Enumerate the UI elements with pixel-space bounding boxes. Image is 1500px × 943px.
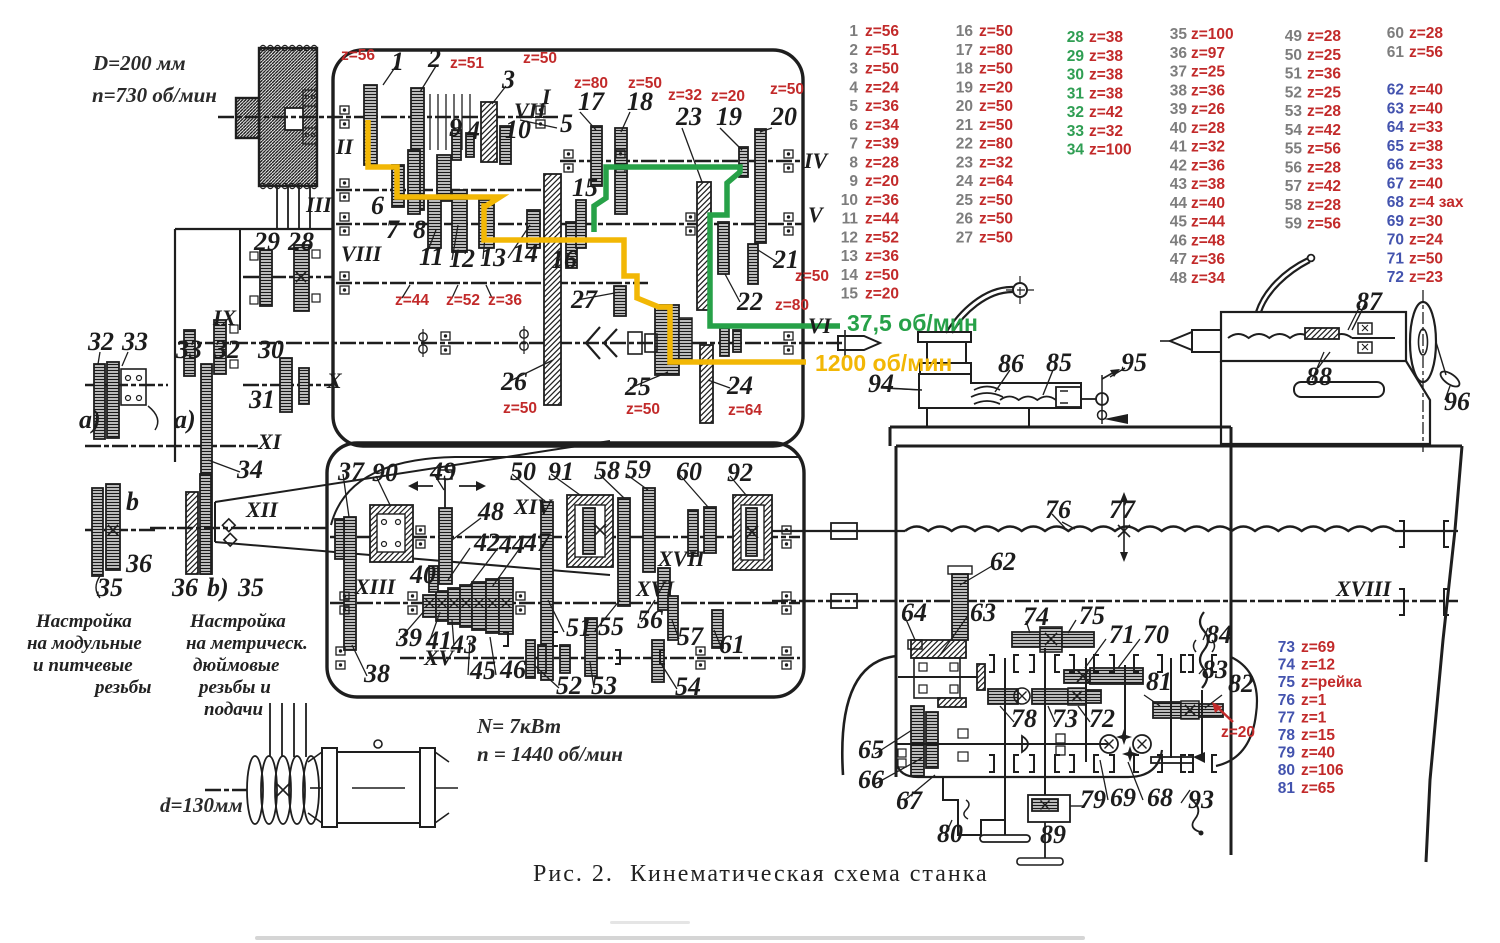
svg-text:z=65: z=65 bbox=[1301, 780, 1335, 797]
svg-text:74: 74 bbox=[1278, 657, 1296, 674]
svg-text:18: 18 bbox=[956, 61, 974, 78]
svg-text:73: 73 bbox=[1278, 639, 1296, 656]
svg-text:79: 79 bbox=[1278, 745, 1296, 762]
svg-text:11: 11 bbox=[419, 242, 444, 271]
svg-text:XII: XII bbox=[245, 497, 279, 522]
svg-text:37,5 об/мин: 37,5 об/мин bbox=[847, 310, 978, 336]
svg-text:47: 47 bbox=[523, 528, 551, 557]
svg-text:z=28: z=28 bbox=[1307, 159, 1341, 176]
svg-text:23: 23 bbox=[956, 154, 974, 171]
svg-text:69: 69 bbox=[1110, 783, 1136, 812]
svg-text:X: X bbox=[326, 368, 343, 393]
svg-text:52: 52 bbox=[556, 671, 582, 700]
svg-text:51: 51 bbox=[1285, 66, 1303, 83]
svg-text:32: 32 bbox=[87, 327, 114, 356]
svg-text:62: 62 bbox=[990, 547, 1016, 576]
svg-text:12: 12 bbox=[449, 244, 475, 273]
svg-text:19: 19 bbox=[956, 79, 974, 96]
svg-text:резьбы и: резьбы и bbox=[197, 677, 271, 698]
svg-text:75: 75 bbox=[1079, 601, 1105, 630]
svg-text:z=50: z=50 bbox=[523, 50, 557, 67]
svg-text:26: 26 bbox=[500, 367, 527, 396]
svg-text:z=40: z=40 bbox=[1409, 82, 1443, 99]
svg-text:24: 24 bbox=[726, 371, 753, 400]
svg-text:z=50: z=50 bbox=[1409, 250, 1443, 267]
svg-text:z=40: z=40 bbox=[1301, 745, 1335, 762]
svg-text:33: 33 bbox=[175, 335, 202, 364]
svg-text:59: 59 bbox=[1285, 216, 1303, 233]
svg-text:z=рейка: z=рейка bbox=[1301, 674, 1362, 691]
svg-text:70: 70 bbox=[1387, 232, 1404, 249]
svg-text:8: 8 bbox=[413, 215, 426, 244]
svg-text:z=56: z=56 bbox=[1307, 141, 1341, 158]
svg-text:z=56: z=56 bbox=[1307, 216, 1341, 233]
svg-text:z=20: z=20 bbox=[865, 173, 899, 190]
svg-text:z=26: z=26 bbox=[1191, 101, 1225, 118]
svg-text:z=28: z=28 bbox=[1307, 103, 1341, 120]
svg-text:37: 37 bbox=[337, 457, 365, 486]
svg-text:83: 83 bbox=[1202, 655, 1228, 684]
svg-text:резьбы: резьбы bbox=[93, 677, 151, 698]
svg-text:z=36: z=36 bbox=[865, 192, 899, 209]
svg-text:33: 33 bbox=[1067, 123, 1085, 140]
svg-text:35: 35 bbox=[96, 573, 123, 602]
svg-text:z=100: z=100 bbox=[1191, 26, 1234, 43]
svg-text:88: 88 bbox=[1306, 362, 1332, 391]
svg-text:z=48: z=48 bbox=[1191, 232, 1225, 249]
svg-text:86: 86 bbox=[998, 349, 1024, 378]
svg-text:77: 77 bbox=[1278, 709, 1295, 726]
svg-text:z=100: z=100 bbox=[1089, 142, 1132, 159]
svg-text:z=50: z=50 bbox=[979, 192, 1013, 209]
svg-text:4: 4 bbox=[849, 79, 858, 96]
svg-text:z=51: z=51 bbox=[450, 55, 484, 72]
svg-text:z=28: z=28 bbox=[865, 154, 899, 171]
svg-text:45: 45 bbox=[469, 656, 496, 685]
svg-text:50: 50 bbox=[510, 457, 536, 486]
svg-text:94: 94 bbox=[868, 369, 894, 398]
svg-text:11: 11 bbox=[842, 211, 859, 228]
svg-text:54: 54 bbox=[675, 672, 701, 701]
svg-text:68: 68 bbox=[1147, 783, 1173, 812]
svg-text:z=97: z=97 bbox=[1191, 45, 1225, 62]
svg-text:z=52: z=52 bbox=[446, 292, 480, 309]
svg-text:9: 9 bbox=[849, 173, 858, 190]
svg-text:z=50: z=50 bbox=[979, 117, 1013, 134]
svg-text:a): a) bbox=[174, 405, 196, 434]
svg-text:z=69: z=69 bbox=[1301, 639, 1335, 656]
svg-text:z=38: z=38 bbox=[1089, 67, 1123, 84]
svg-text:31: 31 bbox=[1067, 85, 1085, 102]
svg-text:z=38: z=38 bbox=[1409, 138, 1443, 155]
svg-text:65: 65 bbox=[858, 735, 884, 764]
svg-text:15: 15 bbox=[572, 173, 598, 202]
svg-text:66: 66 bbox=[858, 765, 884, 794]
svg-text:z=1: z=1 bbox=[1301, 692, 1327, 709]
svg-text:16: 16 bbox=[551, 245, 577, 274]
svg-text:72: 72 bbox=[1387, 269, 1404, 286]
svg-text:IX: IX bbox=[212, 305, 238, 330]
svg-text:z=50: z=50 bbox=[979, 61, 1013, 78]
svg-text:XVI: XVI bbox=[635, 576, 675, 601]
svg-text:14: 14 bbox=[512, 239, 538, 268]
svg-text:z=38: z=38 bbox=[1191, 176, 1225, 193]
svg-text:z=42: z=42 bbox=[1307, 122, 1341, 139]
svg-text:z=28: z=28 bbox=[1307, 28, 1341, 45]
svg-text:7: 7 bbox=[849, 136, 858, 153]
svg-text:IV: IV bbox=[803, 148, 830, 173]
svg-text:6: 6 bbox=[849, 117, 858, 134]
svg-text:z=50: z=50 bbox=[865, 61, 899, 78]
svg-text:38: 38 bbox=[363, 659, 390, 688]
svg-text:68: 68 bbox=[1387, 194, 1405, 211]
svg-text:II: II bbox=[335, 134, 355, 159]
svg-text:z=50: z=50 bbox=[979, 98, 1013, 115]
svg-text:5: 5 bbox=[560, 109, 573, 138]
svg-text:на модульные: на модульные bbox=[27, 633, 142, 654]
svg-text:58: 58 bbox=[1285, 197, 1303, 214]
svg-text:2: 2 bbox=[427, 44, 441, 73]
svg-text:z=34: z=34 bbox=[865, 117, 899, 134]
svg-text:z=20: z=20 bbox=[979, 79, 1013, 96]
svg-text:35: 35 bbox=[1170, 26, 1188, 43]
svg-text:и питчевые: и питчевые bbox=[33, 655, 133, 676]
svg-text:14: 14 bbox=[841, 267, 859, 284]
svg-text:z=32: z=32 bbox=[1191, 139, 1225, 156]
svg-text:12: 12 bbox=[841, 229, 858, 246]
svg-text:XI: XI bbox=[257, 429, 283, 454]
svg-text:8: 8 bbox=[849, 154, 858, 171]
svg-text:92: 92 bbox=[727, 458, 753, 487]
svg-text:z=36: z=36 bbox=[1191, 82, 1225, 99]
svg-text:z=25: z=25 bbox=[1307, 47, 1341, 64]
svg-text:дюймовые: дюймовые bbox=[193, 655, 280, 676]
svg-text:85: 85 bbox=[1046, 348, 1072, 377]
svg-text:z=50: z=50 bbox=[979, 23, 1013, 40]
svg-text:z=36: z=36 bbox=[1191, 251, 1225, 268]
svg-text:33: 33 bbox=[121, 327, 148, 356]
svg-text:z=33: z=33 bbox=[1409, 119, 1443, 136]
svg-text:31: 31 bbox=[248, 385, 275, 414]
svg-text:VII: VII bbox=[514, 98, 547, 123]
svg-text:13: 13 bbox=[841, 248, 859, 265]
svg-text:z=39: z=39 bbox=[865, 136, 899, 153]
svg-text:89: 89 bbox=[1040, 820, 1066, 849]
svg-text:3: 3 bbox=[501, 65, 515, 94]
svg-text:96: 96 bbox=[1444, 387, 1470, 416]
svg-text:z=25: z=25 bbox=[1307, 84, 1341, 101]
svg-text:29: 29 bbox=[253, 227, 280, 256]
svg-text:36: 36 bbox=[1170, 45, 1188, 62]
svg-text:81: 81 bbox=[1278, 780, 1296, 797]
svg-text:на метрическ.: на метрическ. bbox=[186, 633, 308, 654]
svg-text:84: 84 bbox=[1206, 620, 1232, 649]
svg-text:65: 65 bbox=[1387, 138, 1405, 155]
svg-text:57: 57 bbox=[677, 622, 704, 651]
svg-text:22: 22 bbox=[736, 287, 763, 316]
svg-text:48: 48 bbox=[477, 497, 504, 526]
svg-text:57: 57 bbox=[1285, 178, 1302, 195]
svg-text:III: III bbox=[305, 192, 333, 217]
svg-text:37: 37 bbox=[1170, 64, 1187, 81]
svg-text:81: 81 bbox=[1146, 667, 1172, 696]
svg-text:73: 73 bbox=[1052, 704, 1078, 733]
svg-text:z=44: z=44 bbox=[865, 211, 899, 228]
svg-text:z=50: z=50 bbox=[795, 268, 829, 285]
svg-text:17: 17 bbox=[578, 87, 605, 116]
svg-text:19: 19 bbox=[716, 102, 742, 131]
svg-text:77: 77 bbox=[1109, 495, 1136, 524]
svg-text:z=28: z=28 bbox=[1307, 197, 1341, 214]
svg-text:48: 48 bbox=[1170, 270, 1188, 287]
svg-text:z=20: z=20 bbox=[865, 286, 899, 303]
svg-text:z=36: z=36 bbox=[1307, 66, 1341, 83]
svg-text:z=38: z=38 bbox=[1089, 29, 1123, 46]
svg-text:z=36: z=36 bbox=[865, 248, 899, 265]
svg-text:z=25: z=25 bbox=[1191, 64, 1225, 81]
svg-text:32: 32 bbox=[213, 335, 240, 364]
svg-text:15: 15 bbox=[841, 286, 859, 303]
svg-text:36: 36 bbox=[125, 549, 152, 578]
svg-text:17: 17 bbox=[956, 42, 973, 59]
svg-text:z=33: z=33 bbox=[1409, 157, 1443, 174]
svg-text:z=32: z=32 bbox=[1089, 123, 1123, 140]
svg-text:76: 76 bbox=[1278, 692, 1296, 709]
svg-text:63: 63 bbox=[970, 598, 996, 627]
svg-text:53: 53 bbox=[591, 671, 617, 700]
svg-text:61: 61 bbox=[719, 630, 745, 659]
svg-text:54: 54 bbox=[1285, 122, 1303, 139]
svg-text:Кинематическая схема станка: Кинематическая схема станка bbox=[630, 861, 989, 887]
svg-text:35: 35 bbox=[237, 573, 264, 602]
svg-text:5: 5 bbox=[849, 98, 858, 115]
svg-text:z=50: z=50 bbox=[626, 401, 660, 418]
svg-text:74: 74 bbox=[1023, 602, 1049, 631]
svg-text:55: 55 bbox=[1285, 141, 1303, 158]
svg-text:18: 18 bbox=[627, 87, 653, 116]
svg-text:24: 24 bbox=[956, 173, 974, 190]
svg-text:10: 10 bbox=[841, 192, 858, 209]
svg-text:z=40: z=40 bbox=[1409, 175, 1443, 192]
svg-text:28: 28 bbox=[1067, 29, 1085, 46]
svg-text:z=50: z=50 bbox=[979, 229, 1013, 246]
svg-text:20: 20 bbox=[770, 102, 797, 131]
svg-text:Рис. 2.: Рис. 2. bbox=[533, 861, 614, 887]
svg-text:9: 9 bbox=[449, 113, 462, 142]
svg-text:71: 71 bbox=[1387, 250, 1405, 267]
svg-text:z=24: z=24 bbox=[865, 79, 899, 96]
svg-text:51: 51 bbox=[566, 613, 592, 642]
svg-text:26: 26 bbox=[956, 211, 974, 228]
svg-text:z=36: z=36 bbox=[1191, 157, 1225, 174]
svg-text:67: 67 bbox=[1387, 175, 1404, 192]
svg-text:52: 52 bbox=[1285, 84, 1302, 101]
svg-text:a): a) bbox=[79, 405, 101, 434]
svg-text:2: 2 bbox=[849, 42, 858, 59]
svg-text:b): b) bbox=[207, 573, 229, 602]
svg-text:z=50: z=50 bbox=[503, 400, 537, 417]
svg-text:91: 91 bbox=[548, 457, 574, 486]
svg-text:55: 55 bbox=[598, 612, 624, 641]
svg-text:z=42: z=42 bbox=[1307, 178, 1341, 195]
svg-text:34: 34 bbox=[236, 455, 263, 484]
svg-text:71: 71 bbox=[1109, 620, 1135, 649]
svg-text:VIII: VIII bbox=[341, 241, 383, 266]
svg-text:1: 1 bbox=[391, 47, 404, 76]
svg-text:22: 22 bbox=[956, 136, 973, 153]
svg-text:76: 76 bbox=[1045, 495, 1071, 524]
svg-text:z=106: z=106 bbox=[1301, 762, 1344, 779]
svg-text:Настройка: Настройка bbox=[189, 611, 286, 632]
svg-text:28: 28 bbox=[287, 227, 314, 256]
svg-text:z=36: z=36 bbox=[865, 98, 899, 115]
svg-text:47: 47 bbox=[1170, 251, 1187, 268]
svg-text:z=20: z=20 bbox=[1221, 724, 1255, 741]
svg-text:z=30: z=30 bbox=[1409, 213, 1443, 230]
svg-text:N= 7кВт: N= 7кВт bbox=[476, 714, 561, 738]
svg-text:1: 1 bbox=[849, 23, 858, 40]
svg-text:z=80: z=80 bbox=[979, 136, 1013, 153]
svg-text:39: 39 bbox=[395, 623, 422, 652]
svg-text:95: 95 bbox=[1121, 348, 1147, 377]
svg-text:XVIII: XVIII bbox=[1335, 576, 1392, 601]
svg-text:46: 46 bbox=[499, 655, 526, 684]
svg-text:z=34: z=34 bbox=[1191, 270, 1225, 287]
svg-text:49: 49 bbox=[1285, 28, 1303, 45]
svg-text:58: 58 bbox=[594, 456, 620, 485]
svg-text:21: 21 bbox=[772, 245, 799, 274]
svg-text:80: 80 bbox=[1278, 762, 1295, 779]
svg-text:80: 80 bbox=[937, 819, 963, 848]
svg-text:z=24: z=24 bbox=[1409, 232, 1443, 249]
svg-text:62: 62 bbox=[1387, 82, 1404, 99]
svg-text:z=36: z=36 bbox=[488, 292, 522, 309]
svg-text:42: 42 bbox=[1170, 157, 1187, 174]
svg-text:3: 3 bbox=[849, 61, 858, 78]
svg-text:64: 64 bbox=[901, 598, 927, 627]
svg-text:78: 78 bbox=[1278, 727, 1296, 744]
svg-text:D=200 мм: D=200 мм bbox=[92, 51, 186, 75]
svg-text:z=50: z=50 bbox=[979, 211, 1013, 228]
svg-text:z=1: z=1 bbox=[1301, 709, 1327, 726]
svg-text:b: b bbox=[126, 487, 139, 516]
svg-text:78: 78 bbox=[1011, 704, 1037, 733]
svg-text:40: 40 bbox=[1170, 120, 1187, 137]
svg-text:z=38: z=38 bbox=[1089, 85, 1123, 102]
svg-text:z=38: z=38 bbox=[1089, 48, 1123, 65]
svg-text:z=15: z=15 bbox=[1301, 727, 1335, 744]
svg-text:z=28: z=28 bbox=[1409, 25, 1443, 42]
svg-text:Настройка: Настройка bbox=[35, 611, 132, 632]
svg-text:82: 82 bbox=[1228, 669, 1254, 698]
svg-text:61: 61 bbox=[1387, 44, 1405, 61]
svg-text:z=40: z=40 bbox=[1191, 195, 1225, 212]
svg-text:z=32: z=32 bbox=[979, 154, 1013, 171]
svg-text:63: 63 bbox=[1387, 100, 1405, 117]
svg-text:6: 6 bbox=[371, 191, 384, 220]
svg-text:72: 72 bbox=[1089, 704, 1115, 733]
svg-text:n = 1440 об/мин: n = 1440 об/мин bbox=[477, 742, 623, 766]
svg-text:z=56: z=56 bbox=[1409, 44, 1443, 61]
svg-text:44: 44 bbox=[498, 530, 525, 559]
svg-text:z=4 зах: z=4 зах bbox=[1409, 194, 1464, 211]
svg-text:XVII: XVII bbox=[657, 546, 706, 571]
svg-text:75: 75 bbox=[1278, 674, 1296, 691]
svg-text:50: 50 bbox=[1285, 47, 1302, 64]
svg-text:V: V bbox=[808, 202, 825, 227]
svg-text:27: 27 bbox=[570, 285, 598, 314]
svg-text:69: 69 bbox=[1387, 213, 1405, 230]
svg-text:20: 20 bbox=[956, 98, 973, 115]
svg-text:79: 79 bbox=[1080, 785, 1106, 814]
svg-text:56: 56 bbox=[1285, 159, 1303, 176]
svg-text:d=130мм: d=130мм bbox=[160, 793, 243, 817]
svg-text:z=44: z=44 bbox=[1191, 214, 1225, 231]
svg-text:60: 60 bbox=[1387, 25, 1404, 42]
svg-text:7: 7 bbox=[386, 215, 400, 244]
svg-text:45: 45 bbox=[1170, 214, 1188, 231]
svg-text:32: 32 bbox=[1067, 104, 1084, 121]
svg-text:67: 67 bbox=[896, 786, 923, 815]
svg-text:VI: VI bbox=[808, 313, 833, 338]
svg-text:93: 93 bbox=[1188, 785, 1214, 814]
svg-text:z=80: z=80 bbox=[979, 42, 1013, 59]
svg-text:z=80: z=80 bbox=[775, 297, 809, 314]
svg-text:4: 4 bbox=[466, 116, 480, 145]
svg-text:XV: XV bbox=[423, 645, 456, 670]
svg-text:38: 38 bbox=[1170, 82, 1188, 99]
svg-text:44: 44 bbox=[1170, 195, 1188, 212]
svg-text:49: 49 bbox=[429, 457, 456, 486]
svg-text:64: 64 bbox=[1387, 119, 1405, 136]
svg-text:z=50: z=50 bbox=[865, 267, 899, 284]
svg-text:XIV: XIV bbox=[513, 494, 554, 519]
svg-text:n=730 об/мин: n=730 об/мин bbox=[92, 83, 217, 107]
svg-text:60: 60 bbox=[676, 457, 702, 486]
svg-text:87: 87 bbox=[1356, 287, 1383, 316]
svg-text:XIII: XIII bbox=[354, 574, 397, 599]
svg-text:30: 30 bbox=[257, 335, 284, 364]
svg-text:z=52: z=52 bbox=[865, 229, 899, 246]
svg-text:z=50: z=50 bbox=[770, 81, 804, 98]
svg-text:13: 13 bbox=[480, 243, 506, 272]
svg-text:z=40: z=40 bbox=[1409, 100, 1443, 117]
svg-text:z=12: z=12 bbox=[1301, 657, 1335, 674]
svg-text:z=64: z=64 bbox=[728, 402, 762, 419]
svg-text:39: 39 bbox=[1170, 101, 1188, 118]
svg-text:21: 21 bbox=[956, 117, 974, 134]
svg-text:25: 25 bbox=[624, 372, 651, 401]
svg-text:25: 25 bbox=[956, 192, 974, 209]
svg-text:90: 90 bbox=[372, 458, 398, 487]
svg-text:16: 16 bbox=[956, 23, 974, 40]
svg-text:43: 43 bbox=[1170, 176, 1188, 193]
svg-text:27: 27 bbox=[956, 229, 973, 246]
svg-text:41: 41 bbox=[1170, 139, 1188, 156]
svg-text:34: 34 bbox=[1067, 142, 1085, 159]
svg-text:30: 30 bbox=[1067, 67, 1084, 84]
svg-text:z=42: z=42 bbox=[1089, 104, 1123, 121]
svg-text:46: 46 bbox=[1170, 232, 1188, 249]
svg-text:z=56: z=56 bbox=[341, 47, 375, 64]
svg-text:42: 42 bbox=[473, 528, 500, 557]
svg-text:подачи: подачи bbox=[204, 699, 263, 720]
svg-text:70: 70 bbox=[1143, 620, 1169, 649]
svg-text:z=23: z=23 bbox=[1409, 269, 1443, 286]
svg-text:z=56: z=56 bbox=[865, 23, 899, 40]
svg-text:36: 36 bbox=[171, 573, 198, 602]
svg-text:53: 53 bbox=[1285, 103, 1303, 120]
